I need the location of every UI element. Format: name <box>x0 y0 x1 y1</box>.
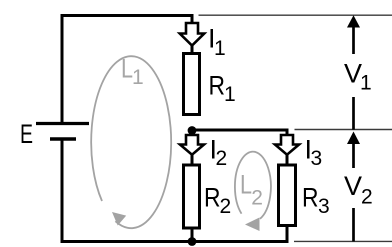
measurement reference line top <box>199 14 392 16</box>
label L2 <box>240 169 263 209</box>
current arrow I3 <box>275 135 299 155</box>
label R3 <box>302 183 330 219</box>
battery E <box>36 124 89 140</box>
node B (bottom junction) <box>188 237 197 246</box>
loop L1 <box>91 56 171 228</box>
label I3 <box>305 135 323 171</box>
svg-text:R: R <box>302 183 319 213</box>
measurement reference line middle <box>295 129 392 131</box>
loop L2 <box>235 152 271 231</box>
label V2 <box>344 171 373 209</box>
resistor R3 <box>279 165 296 226</box>
wire bottom-left: from battery down, across bottom to R3 stub corner <box>62 138 289 242</box>
svg-text:3: 3 <box>318 195 330 218</box>
wire stub below R3 <box>286 224 289 243</box>
node A (junction below R1) <box>188 126 197 135</box>
svg-text:2: 2 <box>220 195 232 218</box>
label R1 <box>209 71 236 107</box>
wire stub below I2 <box>191 154 194 165</box>
svg-text:L: L <box>240 169 252 199</box>
label V1 <box>344 59 372 95</box>
svg-text:2: 2 <box>251 187 263 210</box>
wire top-left: from I1 corner across top and down left side to battery <box>62 16 194 126</box>
svg-text:1: 1 <box>214 37 226 60</box>
svg-text:E: E <box>20 119 33 149</box>
svg-text:2: 2 <box>216 147 228 170</box>
svg-text:2: 2 <box>361 186 373 209</box>
wire stub into I1 <box>191 14 194 25</box>
label I1 <box>208 24 226 61</box>
svg-text:R: R <box>204 182 221 212</box>
current arrow I2 <box>180 135 204 155</box>
wire middle: node A to R3 branch <box>192 129 289 138</box>
voltage arrow V1 <box>347 15 360 129</box>
svg-text:3: 3 <box>311 147 323 170</box>
resistor R2 <box>184 165 200 228</box>
wire stub below I1 <box>191 44 194 53</box>
svg-text:1: 1 <box>132 66 144 89</box>
svg-text:1: 1 <box>224 83 236 106</box>
measurement reference line bottom <box>294 240 392 242</box>
label R2 <box>204 182 231 218</box>
svg-text:V: V <box>344 171 362 201</box>
label I2 <box>210 135 228 171</box>
wire stub below R2 <box>191 227 194 242</box>
voltage arrow V2 <box>347 132 360 242</box>
label L1 <box>121 54 144 90</box>
svg-text:R: R <box>209 71 226 101</box>
current arrow I1 <box>180 23 204 46</box>
svg-text:1: 1 <box>360 72 372 95</box>
wire stub below I3 <box>286 154 289 165</box>
resistor R1 <box>184 54 200 115</box>
